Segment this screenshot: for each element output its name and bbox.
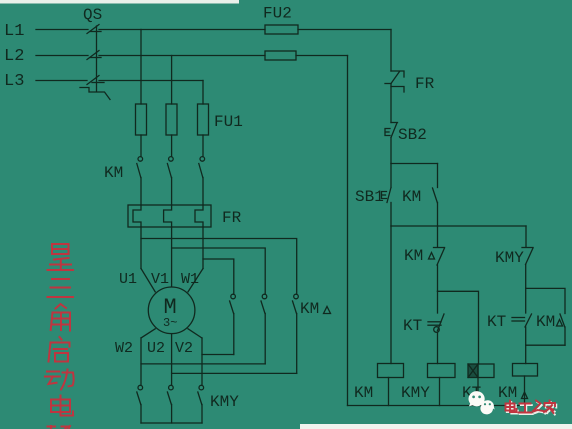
wire FU2b to left control rail [296, 55, 348, 57]
interlock contact KMdelta NC [434, 226, 445, 291]
svg-text:KT: KT [487, 313, 506, 331]
wire star point bar [141, 422, 202, 424]
svg-text:W1: W1 [181, 271, 199, 288]
svg-text:KM: KM [536, 313, 555, 331]
wire W2 down [140, 338, 142, 385]
wire drop L2 to FU1b [171, 56, 173, 105]
contactor KMY star contact 3 [198, 385, 204, 423]
svg-text:W2: W2 [115, 340, 133, 357]
char qi [49, 337, 70, 362]
wire SB1 lower lead [390, 203, 392, 227]
svg-text:KMY: KMY [401, 384, 430, 402]
wire KM coil to bottom rail [388, 378, 390, 406]
wire KM coil branch [390, 226, 392, 364]
wire delta link A V2 to KMdelta1 [202, 354, 234, 356]
coil KM body [378, 364, 404, 378]
contactor KM main contact 1 [137, 157, 143, 205]
interlock contact KMY NC [522, 248, 533, 289]
svg-text:3~: 3~ [163, 316, 177, 330]
fuse FU1c body [198, 104, 209, 135]
svg-text:U1: U1 [119, 271, 137, 288]
wire junction bar y226 [391, 225, 526, 227]
thermal relay FR heater 3 [195, 205, 203, 227]
wire V2 down [201, 338, 203, 385]
contactor KMY star contact 1 [137, 385, 143, 423]
svg-text:FR: FR [222, 209, 242, 227]
thermal contact FR NC [385, 71, 404, 92]
contactor KM main contact 3 [199, 157, 205, 205]
wire FU2a to right rail [298, 29, 391, 31]
wire delta swap line2 phase2 to KMdelta2 [172, 248, 266, 294]
coil KMdelta label triangle [522, 392, 528, 399]
wire SB1 upper lead [390, 164, 392, 188]
coil KT body [468, 364, 494, 378]
svg-text:QS: QS [83, 6, 102, 24]
svg-text:KM: KM [402, 188, 421, 206]
wire motor W2 diagonal [141, 329, 155, 338]
svg-text:SB2: SB2 [398, 126, 427, 144]
contactor KMdelta main contact 3 [293, 294, 299, 373]
wire SB2 to split [390, 138, 392, 164]
svg-text:KMY: KMY [495, 249, 524, 267]
svg-text:KT: KT [403, 317, 422, 335]
wire to KMdelta coil [525, 345, 527, 363]
svg-text:KM: KM [104, 164, 123, 182]
char xing [48, 244, 74, 270]
switch QS pole 3 [87, 76, 104, 85]
wire junction to KMY interlock branch [525, 226, 527, 247]
wire delta swap line3 phase3 to KMdelta1 [203, 259, 234, 294]
auxiliary contact KM NO [433, 164, 438, 227]
wire drop L3 to FU1c [202, 81, 204, 105]
wire delta swap line1 phase1 to KMdelta3 [141, 239, 297, 295]
contactor KMdelta label triangle [324, 307, 331, 314]
char dian [51, 396, 73, 416]
wire U2 down [171, 334, 173, 386]
wire motor V2 diagonal [188, 329, 202, 338]
watermark text dian-gong-zhi-jia shadow [507, 402, 557, 415]
wire KMY coil to bottom rail [439, 378, 441, 406]
bottom white strip [300, 424, 572, 429]
contactor KMdelta main contact 2 [261, 294, 267, 364]
wire phase2 below FR [171, 227, 173, 287]
switch QS pole 1 [87, 25, 101, 34]
contactor KMY star contact 2 [167, 385, 173, 423]
fuse FU2b body [265, 51, 296, 60]
svg-text:V1: V1 [151, 271, 169, 288]
contactor KMdelta main contact 1 [230, 294, 236, 354]
wire FR to SB2 [390, 84, 392, 123]
stop button SB2 [385, 123, 398, 138]
wire split to KMdelta aux branch [526, 288, 565, 313]
wire delta link C U2 to KMdelta3 [172, 372, 297, 374]
wire L2 after QS [99, 55, 265, 57]
wire bottom rail [348, 405, 525, 407]
timed contact KT NO delayed closing [428, 291, 444, 363]
svg-text:SB1: SB1 [355, 188, 384, 206]
wire L2 incoming [36, 55, 88, 57]
watermark wechat icon [468, 391, 494, 414]
svg-text:FU2: FU2 [263, 5, 292, 23]
svg-text:FR: FR [415, 75, 435, 93]
wire split to KT coil branch [438, 291, 479, 364]
svg-text:U2: U2 [147, 340, 165, 357]
wire drop L1 to FU1a [140, 30, 142, 105]
switch QS pole 2 [87, 51, 101, 60]
wire right rail from FU2a down [390, 30, 392, 72]
wire motor U1 diagonal [141, 269, 155, 292]
coil KMdelta body [513, 364, 538, 377]
svg-text:KMY: KMY [210, 393, 239, 411]
wire L3 after QS [99, 80, 203, 82]
char san [48, 279, 74, 297]
caption star-delta start circuit (red vertical calligraphy) [45, 244, 74, 429]
wire FU1b to KM contact 2 [171, 135, 173, 157]
wire L3 incoming [36, 80, 87, 82]
wire left control rail [347, 56, 349, 406]
svg-text:L2: L2 [4, 47, 24, 66]
fuse FU1b body [166, 104, 177, 135]
auxiliary contact KMdelta NO [560, 314, 565, 345]
switch QS handle [80, 88, 110, 100]
char lu (top sliver, cut by image edge) [48, 426, 71, 429]
svg-text:L3: L3 [4, 72, 24, 91]
char dong [45, 370, 74, 390]
fuse FU2a body [265, 25, 298, 34]
interlock KMdelta label triangle [429, 253, 435, 260]
wire FU1a to KM contact 1 [140, 135, 142, 157]
wire KT coil to bottom rail [477, 378, 479, 406]
wire L1 after QS [99, 29, 265, 31]
start button SB1 [382, 188, 392, 203]
switch QS linkage bar [96, 26, 98, 92]
thermal relay FR heater 2 [164, 205, 172, 227]
wire FU1c to KM contact 3 [202, 135, 204, 157]
svg-text:FU1: FU1 [214, 113, 243, 131]
watermark text dian-gong-zhi-jia (red) [506, 401, 556, 414]
wire phase3 below FR [202, 227, 204, 269]
svg-text:KM: KM [354, 384, 373, 402]
char jiao [51, 304, 70, 331]
thermal relay FR heater 1 [133, 205, 141, 227]
contactor KM main contact 2 [167, 157, 173, 205]
svg-text:L1: L1 [4, 22, 24, 41]
svg-text:V2: V2 [175, 340, 193, 357]
thermal relay FR box [128, 205, 211, 227]
wire split to KM aux branch [391, 163, 438, 165]
top white strip [0, 0, 239, 4]
wire delta link B W2 to KMdelta2 [141, 363, 265, 365]
wire rejoin bar KMdelta branch [526, 344, 565, 346]
coil KMY body [428, 364, 456, 378]
svg-text:KM: KM [300, 300, 319, 318]
motor M circle [148, 287, 195, 334]
svg-text:KM: KM [498, 384, 517, 402]
wire phase1 below FR [140, 227, 142, 269]
timed contact KT NC delayed [512, 288, 532, 345]
wire motor W1 diagonal [188, 269, 203, 292]
wire KMdelta coil to bottom rail [524, 376, 526, 406]
fuse FU1a body [136, 104, 147, 135]
auxiliary KMdelta label triangle [557, 320, 563, 327]
svg-text:KM: KM [404, 247, 423, 265]
wire L1 incoming [36, 29, 88, 31]
